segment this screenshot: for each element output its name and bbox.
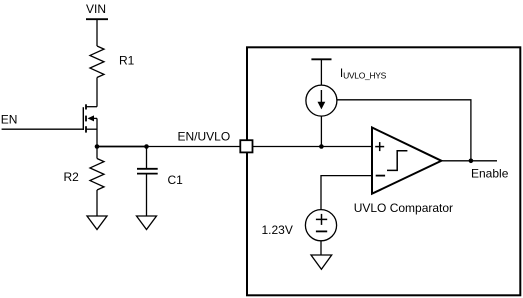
svg-text:C1: C1	[168, 173, 184, 187]
svg-text:VIN: VIN	[86, 2, 106, 16]
svg-text:R1: R1	[119, 54, 135, 68]
svg-text:UVLO Comparator: UVLO Comparator	[354, 201, 453, 215]
svg-text:EN: EN	[1, 113, 18, 127]
svg-text:UVLO_HYS: UVLO_HYS	[343, 71, 387, 81]
svg-text:Enable: Enable	[471, 167, 509, 181]
svg-text:R2: R2	[64, 170, 80, 184]
svg-text:1.23V: 1.23V	[262, 223, 293, 237]
svg-text:EN/UVLO: EN/UVLO	[178, 130, 231, 144]
